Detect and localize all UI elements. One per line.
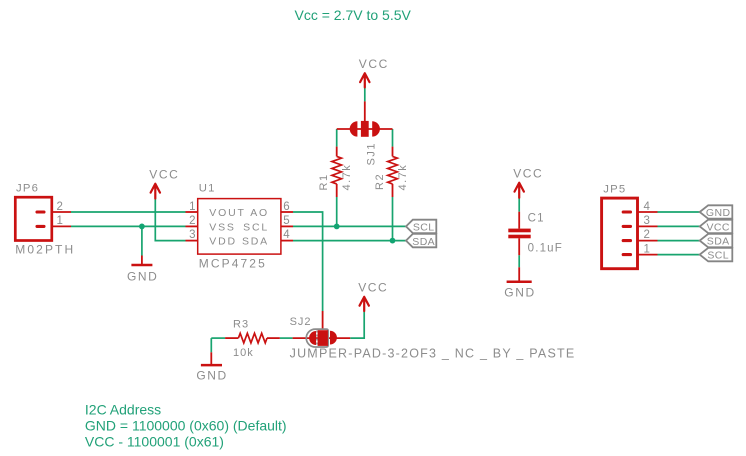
svg-text:VSS: VSS [209,221,235,233]
svg-text:4.7k: 4.7k [397,164,409,191]
svg-text:6: 6 [283,201,289,213]
svg-text:4: 4 [283,229,290,241]
svg-text:5: 5 [283,215,289,227]
svg-text:GND: GND [196,369,227,383]
svg-text:2: 2 [189,215,195,227]
svg-text:C1: C1 [528,213,545,225]
svg-text:VCC - 1100001 (0x61): VCC - 1100001 (0x61) [85,434,224,450]
svg-text:SDA: SDA [707,236,730,248]
svg-text:3: 3 [189,229,195,241]
svg-text:SDA: SDA [242,236,269,248]
svg-text:VCC: VCC [359,57,389,71]
svg-text:I2C Address: I2C Address [85,402,161,418]
svg-text:JUMPER-PAD-3-2OF3 _ NC _ BY _: JUMPER-PAD-3-2OF3 _ NC _ BY _ PASTE [290,347,576,361]
svg-text:1: 1 [189,201,195,213]
svg-text:SCL: SCL [707,250,729,262]
svg-text:GND = 1100000 (0x60) (Default): GND = 1100000 (0x60) (Default) [85,418,287,434]
svg-text:VOUT: VOUT [209,207,245,219]
svg-text:GND: GND [504,286,535,300]
svg-text:MCP4725: MCP4725 [199,257,267,271]
svg-text:VCC: VCC [149,167,179,181]
svg-text:4: 4 [644,201,651,213]
svg-text:JP5: JP5 [603,184,626,196]
svg-text:R1: R1 [318,173,330,190]
svg-text:VDD: VDD [209,236,237,248]
svg-text:Vcc = 2.7V to 5.5V: Vcc = 2.7V to 5.5V [295,7,412,23]
svg-text:10k: 10k [233,347,254,359]
svg-text:4.7k: 4.7k [341,164,353,191]
svg-text:3: 3 [644,215,650,227]
svg-text:M02PTH: M02PTH [15,243,75,257]
svg-text:1: 1 [644,243,650,255]
svg-text:GND: GND [127,270,158,284]
svg-text:U1: U1 [199,183,216,195]
svg-text:VCC: VCC [707,221,730,233]
svg-text:AO: AO [250,207,269,219]
svg-text:JP6: JP6 [16,183,39,195]
svg-text:GND: GND [706,207,731,219]
svg-text:R3: R3 [233,319,249,331]
svg-text:SDA: SDA [412,236,435,248]
svg-text:VCC: VCC [513,166,543,180]
svg-text:R2: R2 [374,173,386,190]
svg-text:SCL: SCL [413,222,435,234]
svg-text:SJ1: SJ1 [365,142,377,165]
svg-text:SJ2: SJ2 [290,316,312,328]
svg-text:SCL: SCL [243,221,269,233]
svg-text:2: 2 [57,201,63,213]
svg-text:1: 1 [57,215,63,227]
svg-text:VCC: VCC [358,281,388,295]
svg-text:2: 2 [644,229,650,241]
svg-text:0.1uF: 0.1uF [528,243,563,255]
